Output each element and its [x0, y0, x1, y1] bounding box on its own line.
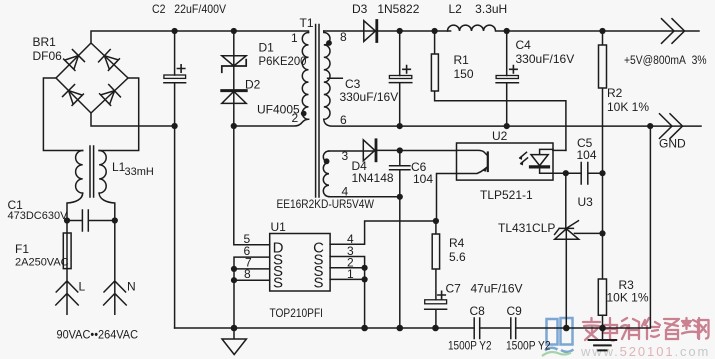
wire: bridge minus to C2 bottom: [91, 113, 175, 126]
svg-text:D3 1N5822: D3 1N5822: [352, 2, 420, 16]
svg-text:C2 22uF/400V: C2 22uF/400V: [152, 2, 226, 16]
wire: choke left bottom lead: [67, 193, 83, 220]
plus sign of C3: [403, 66, 410, 73]
terminal +5V output arrow: [662, 19, 685, 44]
wire: U2 emitter to R4 top: [437, 174, 457, 222]
svg-text:C3: C3: [345, 77, 361, 91]
plus sign of C2: [177, 65, 184, 72]
node: aux rail junction: [397, 325, 404, 332]
node: pin 2 junction: [362, 265, 368, 271]
IC U1 TOP210PFI box: [270, 234, 330, 292]
svg-text:U1: U1: [271, 220, 287, 234]
watermark green swoosh: [542, 352, 571, 356]
terminal N input arrow: [104, 221, 127, 315]
diode BR1-c (lower-left): [63, 85, 84, 106]
wire: U2 LED anode to GND rail: [553, 149, 566, 151]
svg-text:1500P Y2: 1500P Y2: [506, 339, 551, 353]
svg-text:2: 2: [292, 111, 299, 125]
svg-text:6: 6: [340, 113, 347, 127]
svg-text:S: S: [273, 275, 283, 292]
node: D2 bottom junction: [231, 123, 237, 129]
watermark book icon: [545, 318, 574, 352]
svg-text:1N4148: 1N4148: [352, 171, 394, 185]
diode BR1-d (lower-right): [100, 85, 121, 106]
capacitor C8 1500P Y2: [474, 318, 480, 339]
wire: C6 junction down to primary ground rail: [399, 197, 401, 328]
optocoupler U2 TLP521-1 box: [457, 143, 554, 180]
node: primary phase dot: [301, 111, 307, 117]
node: C5 left junction: [563, 170, 569, 176]
svg-text:C9: C9: [507, 304, 523, 318]
node: pin 1 junction: [362, 276, 368, 282]
terminal GND output arrow: [660, 114, 683, 139]
svg-text:33mH: 33mH: [125, 166, 154, 178]
capacitor C1 473DC630V: [67, 210, 115, 231]
node: C1 right: [112, 217, 118, 223]
svg-text:104: 104: [413, 172, 433, 186]
svg-text:DF06: DF06: [33, 49, 63, 63]
node: GND branch junction: [647, 123, 653, 129]
svg-text:330uF/16V: 330uF/16V: [340, 90, 399, 104]
svg-text:5.6: 5.6: [449, 250, 466, 264]
diode BR1-a (upper-left): [64, 50, 85, 71]
fuse F1 2A250VAC: [63, 221, 71, 269]
node: earth rail junction: [599, 325, 606, 332]
svg-text:8: 8: [340, 30, 347, 44]
capacitor C6 104: [390, 151, 410, 197]
svg-text:N: N: [127, 280, 136, 294]
capacitor C3 330uF/16V: [389, 31, 411, 126]
capacitor C7 47uF/16V: [425, 309, 447, 328]
node: C6 bottom junction: [397, 194, 403, 200]
svg-text:U3: U3: [578, 195, 594, 209]
svg-text:BR1: BR1: [33, 35, 57, 49]
svg-text:R2: R2: [607, 86, 623, 100]
svg-text:104: 104: [577, 148, 597, 162]
capacitor C2 22uF/400V: [164, 31, 186, 126]
node: C3 top junction: [397, 28, 403, 34]
winding T1 auxiliary: [323, 151, 329, 197]
winding T1 primary: [302, 33, 308, 120]
svg-text:TL431CLP: TL431CLP: [498, 221, 555, 235]
node: D4-C6 junction: [397, 147, 403, 153]
node: R4 top junction: [433, 218, 439, 224]
svg-text:D2: D2: [245, 78, 261, 92]
diode D1 P6KE200 (TVS): [222, 31, 246, 91]
transistor inside U2: [457, 150, 488, 173]
ground (primary) triangle: [222, 328, 246, 355]
inductor L1 left winding: [76, 151, 83, 194]
wire: D2 junction to T1 pin 2: [234, 119, 309, 126]
svg-text:10K 1%: 10K 1%: [607, 100, 649, 114]
node: pin 8 junction: [231, 277, 237, 283]
svg-text:T1: T1: [300, 16, 314, 30]
svg-text:R1: R1: [454, 53, 470, 67]
resistor R4 5.6: [432, 221, 439, 300]
wire: U1 pins 3,2,1 to source column: [330, 257, 365, 329]
resistor R2 10K 1%: [599, 31, 607, 233]
wire: aux pin 4 to C6 bottom: [329, 196, 400, 198]
svg-text:F1: F1: [15, 242, 29, 256]
svg-text:1500P Y2: 1500P Y2: [448, 339, 492, 353]
resistor R3 10K 1%: [598, 233, 606, 328]
node: secondary phase dot: [326, 40, 332, 46]
svg-text:90VAC••264VAC: 90VAC••264VAC: [57, 328, 139, 342]
wire: D3 to L2: [377, 30, 451, 32]
capacitor C9 1500P Y2: [511, 318, 516, 339]
svg-text:1: 1: [291, 31, 298, 45]
node: C4 bottom junction: [504, 123, 510, 129]
capacitor C5 104: [581, 163, 602, 185]
wire: secondary top rail to D3: [324, 30, 377, 32]
node: C7 rail junction: [432, 325, 439, 332]
svg-text:L: L: [79, 280, 86, 294]
svg-text:473DC630V: 473DC630V: [8, 210, 69, 222]
svg-text:47uF/16V: 47uF/16V: [471, 282, 523, 296]
node: C4 top junction: [504, 28, 510, 34]
svg-text:150: 150: [454, 67, 474, 81]
svg-text:S: S: [313, 275, 323, 292]
svg-text:C7: C7: [446, 282, 462, 296]
node: R2 top junction: [599, 28, 605, 34]
svg-text:2A250VAC: 2A250VAC: [15, 257, 69, 269]
terminal L input arrow: [56, 269, 78, 315]
node: C5 right junction: [599, 170, 605, 176]
wire: choke right bottom lead: [99, 193, 115, 220]
node: divider junction: [599, 230, 605, 236]
wire: primary top rail: [91, 31, 309, 43]
node: pins 3,2,1 rail junction: [361, 325, 368, 332]
node: D1 top junction: [231, 28, 237, 34]
capacitor C4 330uF/16V: [496, 31, 518, 126]
wire: D2 junction down to U1 pin 5: [234, 126, 270, 245]
node: R1 top junction: [432, 28, 438, 34]
diode D3 1N5822: [364, 21, 376, 42]
svg-text:R4: R4: [449, 236, 465, 250]
inductor L2 3.3uH: [448, 25, 508, 31]
svg-text:+5V@800mA 3%: +5V@800mA 3%: [624, 55, 707, 67]
node: C1 left: [64, 217, 70, 223]
wire: U1 pins 6,7,8 to source rail: [234, 257, 270, 328]
watermark characters: [583, 318, 709, 341]
wire: primary ground rail: [175, 126, 651, 328]
ground (earth) symbol: [602, 328, 604, 340]
svg-text:C8: C8: [470, 304, 486, 318]
diode BR1-b (upper-right): [99, 50, 120, 71]
plus sign of C7: [438, 291, 445, 298]
shunt regulator U3 TL431CLP: [555, 173, 579, 328]
svg-text:10K 1%: 10K 1%: [607, 291, 649, 305]
winding T1 secondary: [324, 31, 330, 119]
plus sign of C4: [510, 66, 517, 73]
LED inside U2: [531, 149, 553, 173]
wire: C2 bottom to primary ground rail: [174, 126, 176, 328]
svg-text:C4: C4: [516, 38, 532, 52]
light arrows inside U2: [520, 152, 528, 163]
svg-text:U2: U2: [492, 129, 508, 143]
wire: C3 leader line from secondary: [328, 77, 343, 79]
wire: bridge AC left to choke: [43, 78, 82, 151]
wire: L2 to +5V arrow: [505, 30, 699, 32]
svg-text:TLP521-1: TLP521-1: [480, 188, 533, 202]
svg-text:P6KE200: P6KE200: [259, 54, 307, 68]
node: C2 top junction: [172, 28, 178, 34]
wire: bridge AC right to choke: [99, 78, 139, 151]
svg-text:GND: GND: [659, 137, 686, 151]
node: TL431 rail junction: [563, 325, 570, 332]
wire: D4 node to U2 collector: [400, 150, 457, 152]
node: C2 bottom junction: [172, 123, 178, 129]
inductor L1 right winding: [99, 151, 106, 194]
node: pin 7 junction: [231, 266, 237, 272]
transformer T1 core: [316, 25, 319, 198]
wire: U2 LED cathode to C5: [553, 172, 581, 174]
node: C3 bottom junction: [397, 123, 403, 129]
svg-text:EE16R2KD-UR5V4W: EE16R2KD-UR5V4W: [277, 197, 375, 211]
svg-text:D1: D1: [259, 41, 275, 55]
node: auxiliary phase dot: [324, 158, 330, 164]
wire: U1 pin 4 control to R4 node: [330, 221, 436, 244]
diode D2 UF4005: [222, 91, 246, 126]
bridge rectifier BR1 diamond: [56, 43, 128, 113]
svg-text:330uF/16V: 330uF/16V: [516, 52, 575, 66]
node: source rail junction: [231, 325, 238, 332]
core of L1: [90, 146, 94, 197]
diode D4 1N4148: [329, 140, 400, 161]
wire: TL431 ref to divider: [575, 232, 603, 234]
svg-text:L2 3.3uH: L2 3.3uH: [449, 2, 508, 16]
wire: secondary ground rail: [324, 119, 701, 126]
resistor R1 150: [431, 31, 566, 150]
svg-text:TOP210PFI: TOP210PFI: [270, 306, 324, 320]
